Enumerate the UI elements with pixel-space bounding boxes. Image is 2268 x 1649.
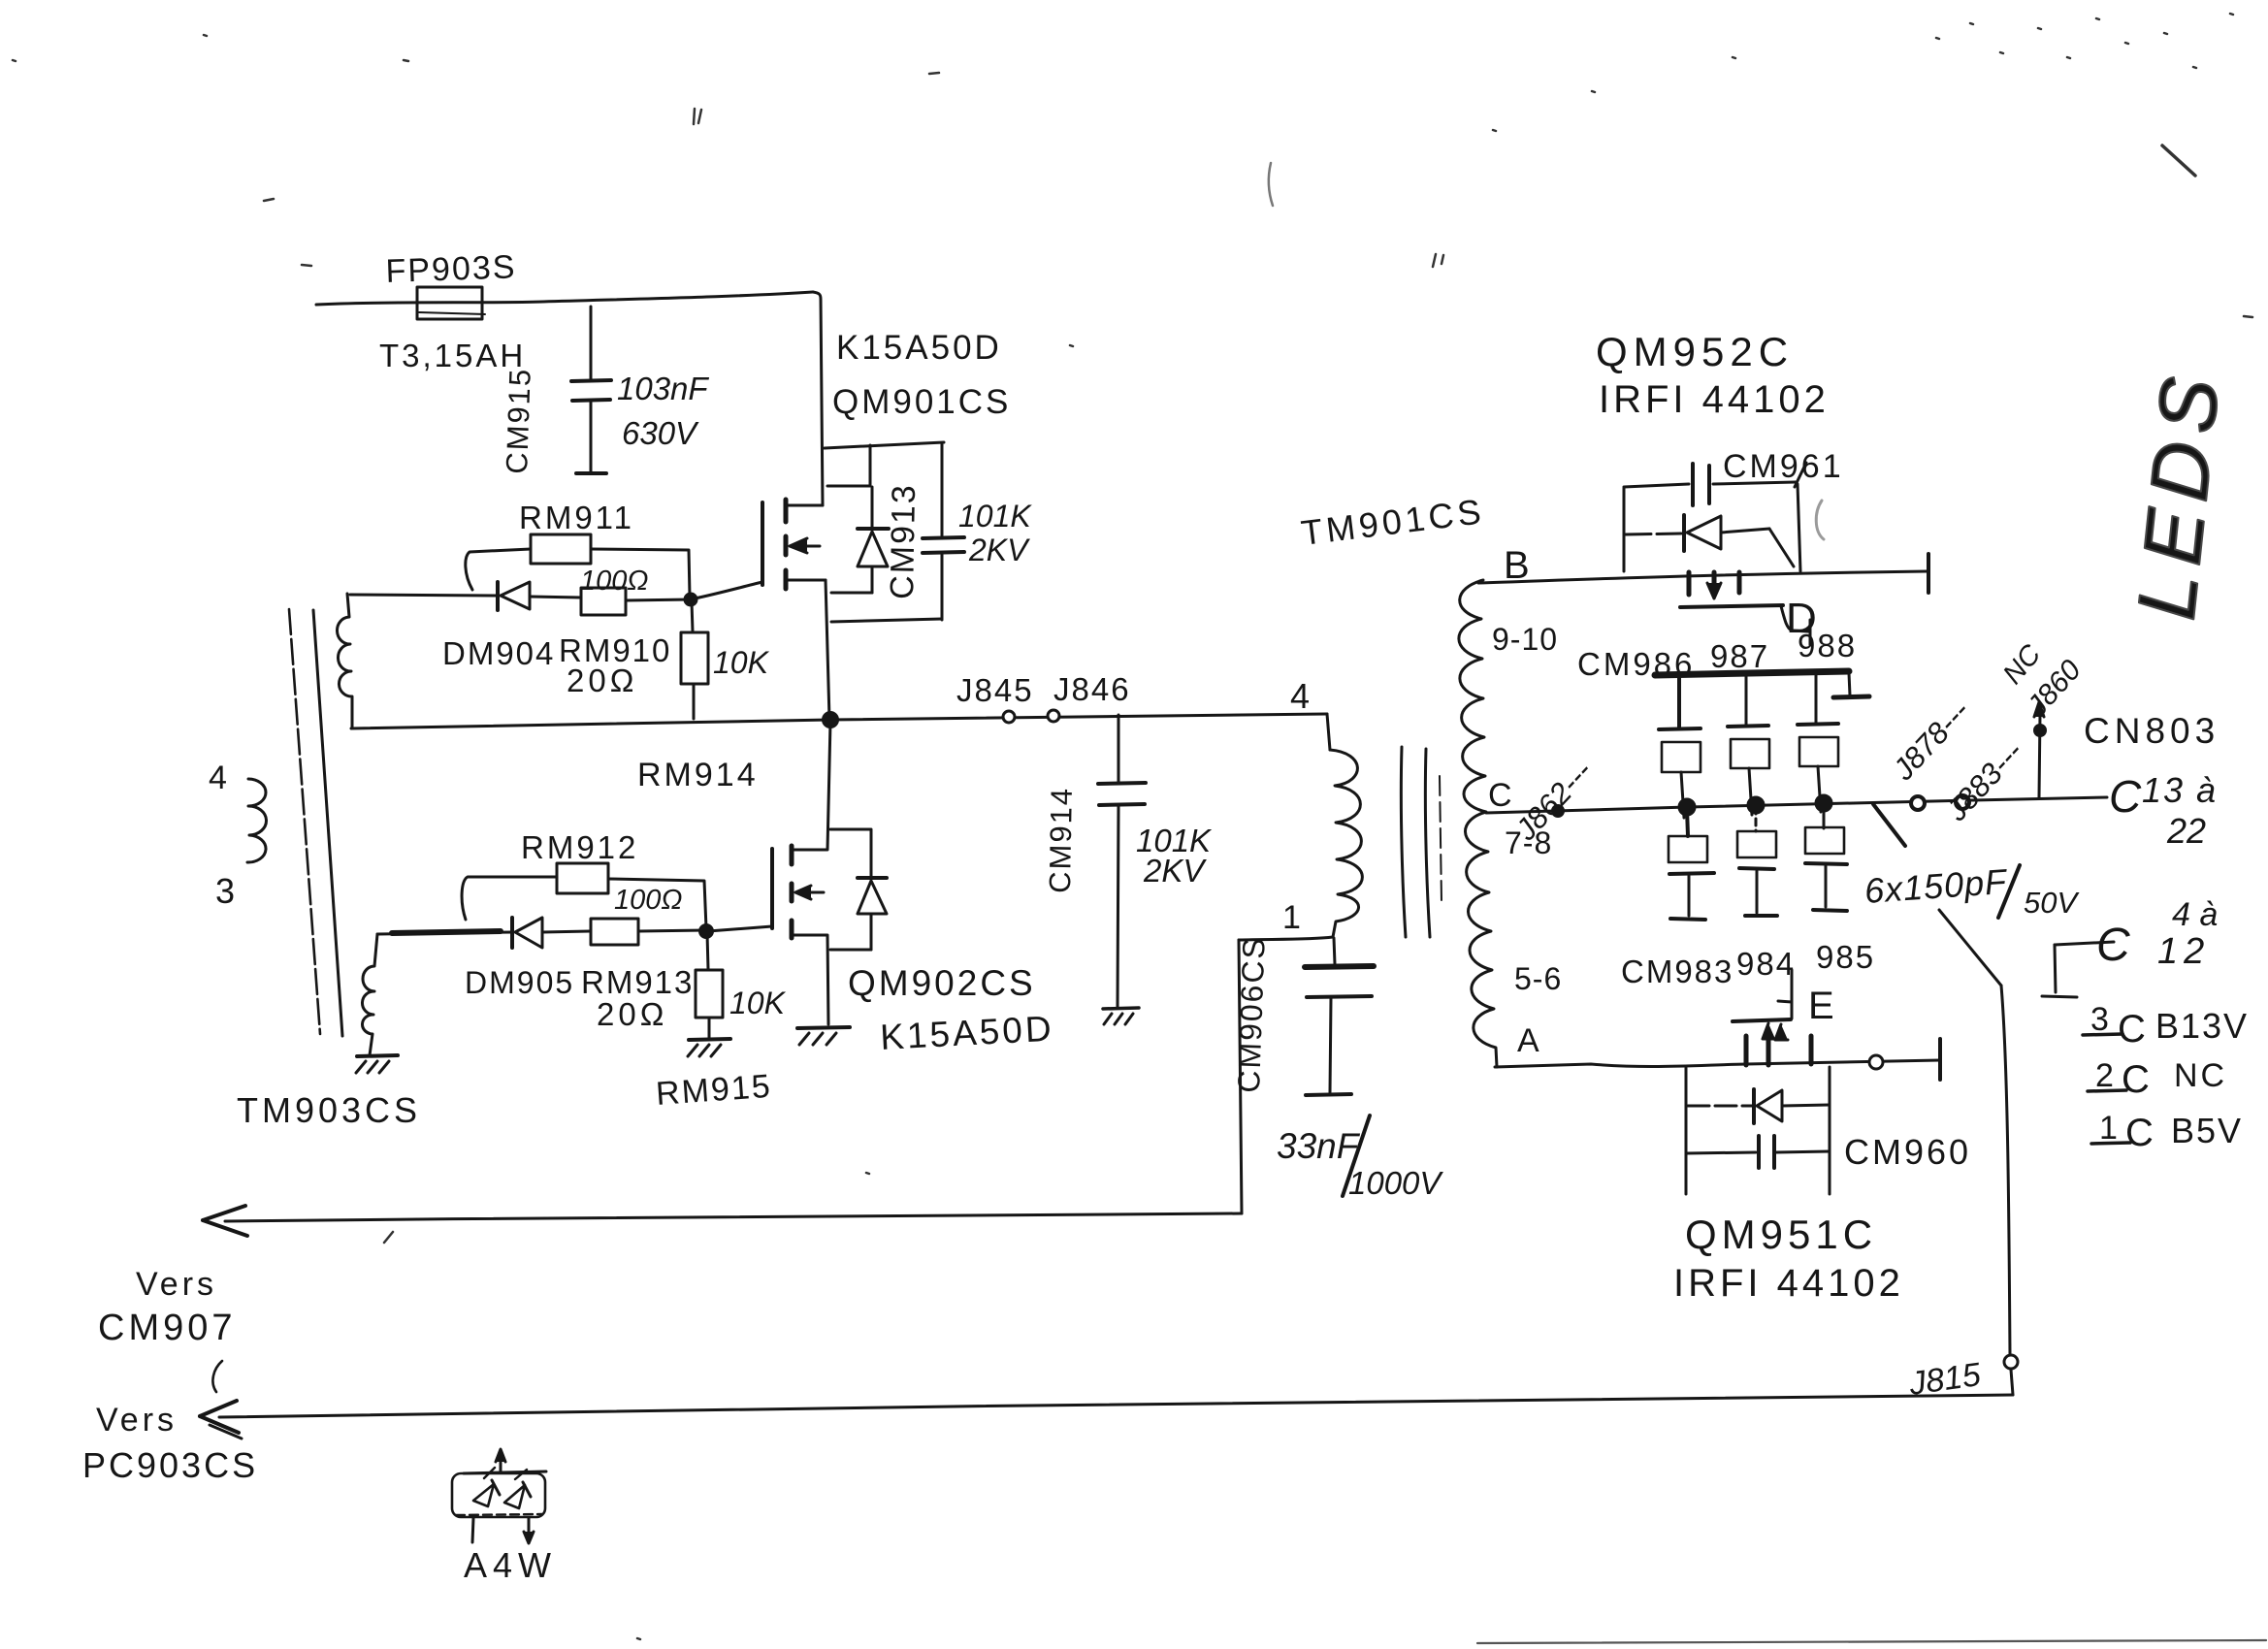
node mid rail junction xyxy=(824,713,838,727)
svg-text:FP903S: FP903S xyxy=(385,248,517,290)
svg-text:984: 984 xyxy=(1736,946,1796,982)
svg-text:2: 2 xyxy=(2095,1057,2114,1094)
wire bottom rail 1 (vers CM907) xyxy=(98,1206,1242,1348)
connector pin 2 NC xyxy=(2088,1057,2227,1101)
diode CM913 with snubber box xyxy=(825,442,944,622)
svg-text:1000V: 1000V xyxy=(1348,1165,1443,1201)
diode QM952 body xyxy=(1626,515,1794,566)
svg-text:CM914: CM914 xyxy=(1043,787,1079,894)
capacitor CM988 xyxy=(1798,672,1838,812)
capacitor CM984 xyxy=(1736,807,1796,982)
svg-text:QM902CS: QM902CS xyxy=(848,963,1036,1003)
node C rail junction 3 xyxy=(1816,795,1831,811)
svg-text:IRFI 44102: IRFI 44102 xyxy=(1673,1262,1904,1305)
resistor RM911 xyxy=(466,500,690,597)
svg-text:4: 4 xyxy=(209,760,227,796)
svg-text:103nF: 103nF xyxy=(617,371,709,406)
svg-text:J846: J846 xyxy=(1053,671,1131,707)
connector pin 1 B5V xyxy=(2091,1110,2243,1154)
capacitor bank CM986 987 988 xyxy=(1577,628,1857,682)
capacitor CM906CS xyxy=(1231,935,1443,1201)
label 6x150pF/50V xyxy=(1863,804,2081,920)
svg-text:2KV: 2KV xyxy=(968,533,1030,567)
svg-text:10K: 10K xyxy=(729,986,787,1020)
svg-text:A4W: A4W xyxy=(464,1545,557,1585)
svg-text:B13V: B13V xyxy=(2155,1006,2249,1046)
connector pin 3 B13V xyxy=(2083,1001,2249,1051)
wire left drop to bottom rail xyxy=(1239,940,1242,1213)
svg-text:22: 22 xyxy=(2166,811,2206,851)
node gate junction QM902 xyxy=(700,925,773,938)
svg-text:C: C xyxy=(2109,771,2142,822)
svg-text:100Ω: 100Ω xyxy=(614,885,682,916)
svg-text:DM904: DM904 xyxy=(442,635,555,671)
wire top rail xyxy=(316,292,813,305)
svg-text:C: C xyxy=(2125,1112,2154,1154)
svg-text:NC: NC xyxy=(2174,1057,2227,1094)
svg-text:DM905: DM905 xyxy=(465,965,574,1000)
svg-text:PC903CS: PC903CS xyxy=(82,1445,258,1485)
transformer T901 core xyxy=(1401,747,1442,937)
node J815 xyxy=(1906,1355,2018,1403)
transistor QM901 (K15A50D) xyxy=(762,329,1011,719)
svg-text:985: 985 xyxy=(1816,939,1875,975)
wire gate QM901 xyxy=(695,582,762,598)
wire bottom rail 2 (vers PC903CS) xyxy=(82,1361,2013,1485)
wire C rail xyxy=(1486,797,2107,813)
net LEDS xyxy=(2120,364,2237,624)
fuse FP903S xyxy=(379,248,526,373)
svg-text:CM983: CM983 xyxy=(1621,954,1733,989)
transformer TM903CS left winding pins 4-3 xyxy=(209,760,267,911)
capacitor CM914 xyxy=(1043,715,1213,1007)
transformer T901 primary winding xyxy=(1282,750,1362,937)
diode DM905 xyxy=(377,918,590,1000)
svg-text:RM911: RM911 xyxy=(519,500,634,535)
node gate junction QM901 xyxy=(685,594,697,605)
label TM903CS xyxy=(237,1090,421,1130)
svg-text:C: C xyxy=(2118,1008,2146,1051)
svg-text:RM912: RM912 xyxy=(521,829,638,865)
ground bus xyxy=(1833,673,1869,697)
transformer TM901CS winding xyxy=(1299,491,1562,1067)
wire drain drop QM901 xyxy=(813,292,823,505)
node J845 xyxy=(956,672,1034,723)
diode QM902 body xyxy=(830,829,887,950)
svg-text:988: 988 xyxy=(1798,628,1857,663)
svg-text:20Ω: 20Ω xyxy=(597,996,667,1032)
svg-text:QM952C: QM952C xyxy=(1596,329,1794,374)
capacitor CM915 xyxy=(500,307,709,474)
ground CM914 xyxy=(1103,1008,1139,1024)
svg-text:9-10: 9-10 xyxy=(1492,622,1558,657)
svg-text:RM913: RM913 xyxy=(581,964,694,1000)
wire to J815 xyxy=(1939,910,2013,1395)
svg-text:2KV: 2KV xyxy=(1143,853,1207,889)
diode DM904 xyxy=(350,582,581,671)
resistor RM912 xyxy=(462,829,706,928)
wire pin1 node xyxy=(1239,937,1335,964)
resistor RM910 xyxy=(559,588,691,698)
svg-text:K15A50D: K15A50D xyxy=(836,329,1002,367)
svg-text:50V: 50V xyxy=(2024,886,2080,920)
transistor QM952 (QM952C IRFI44102) xyxy=(1596,329,1830,645)
svg-text:Vers: Vers xyxy=(96,1402,178,1439)
svg-text:CM913: CM913 xyxy=(884,483,923,599)
svg-text:3: 3 xyxy=(215,871,235,911)
svg-text:CM961: CM961 xyxy=(1723,448,1844,485)
transformer TM903CS lower winding xyxy=(362,934,377,1055)
ground TM903CS xyxy=(356,1055,398,1073)
ground RM915 xyxy=(655,1039,773,1113)
svg-text:3: 3 xyxy=(2090,1001,2109,1038)
node C rail junction 1 xyxy=(1679,799,1695,815)
svg-text:Vers: Vers xyxy=(136,1266,217,1303)
node A rail circle xyxy=(1869,1055,1883,1069)
transformer TM903CS upper winding xyxy=(337,594,352,727)
node J883 xyxy=(1939,734,2029,827)
svg-text:B5V: B5V xyxy=(2171,1111,2243,1150)
capacitor CM986 xyxy=(1659,675,1701,818)
LED A4W xyxy=(452,1449,557,1585)
node J862 xyxy=(1508,754,1599,847)
transistor QM902 xyxy=(772,722,1055,1057)
svg-text:13 à: 13 à xyxy=(2142,770,2218,810)
svg-text:1: 1 xyxy=(2099,1110,2118,1147)
resistor 10K lower (RM915) xyxy=(696,933,787,1038)
svg-text:CN803: CN803 xyxy=(2084,711,2219,751)
svg-text:5-6: 5-6 xyxy=(1514,961,1562,996)
svg-text:12: 12 xyxy=(2157,931,2210,972)
svg-text:QM951C: QM951C xyxy=(1685,1212,1877,1257)
svg-text:1: 1 xyxy=(1282,899,1301,936)
svg-text:CM907: CM907 xyxy=(98,1308,237,1348)
connector CN803 pin J860 xyxy=(1997,638,2219,797)
transistor QM951 (QM951C IRFI44102) xyxy=(1673,970,1904,1305)
svg-text:RM914: RM914 xyxy=(637,757,759,793)
capacitor CM983 xyxy=(1621,809,1733,989)
svg-text:IRFI 44102: IRFI 44102 xyxy=(1599,378,1830,421)
svg-text:987: 987 xyxy=(1710,638,1769,674)
svg-text:J845: J845 xyxy=(956,672,1034,708)
capacitor CM985 xyxy=(1805,805,1875,975)
capacitor 101K 2KV (on CM913 box) xyxy=(923,499,1032,620)
diode QM951 body xyxy=(1686,1067,1830,1194)
capacitor CM987 xyxy=(1728,673,1769,815)
svg-text:10K: 10K xyxy=(713,645,770,680)
net C4 a 12 xyxy=(2042,896,2218,997)
ground QM902 xyxy=(797,1027,850,1045)
node C rail junction 2 xyxy=(1748,797,1764,813)
svg-text:630V: 630V xyxy=(622,415,699,451)
svg-text:C: C xyxy=(2122,1058,2150,1101)
svg-text:4: 4 xyxy=(1290,676,1310,716)
svg-text:CM915: CM915 xyxy=(500,367,537,474)
svg-text:4 à: 4 à xyxy=(2172,896,2218,933)
svg-text:C: C xyxy=(1488,777,1512,814)
svg-text:TM903CS: TM903CS xyxy=(237,1090,421,1130)
wire B rail xyxy=(1478,554,1928,593)
svg-text:E: E xyxy=(1808,985,1834,1027)
capacitor CM960 xyxy=(1686,1132,1971,1172)
capacitor CM961 xyxy=(1624,448,1844,571)
svg-text:CM960: CM960 xyxy=(1844,1132,1971,1172)
svg-text:C: C xyxy=(2096,920,2130,971)
svg-text:20Ω: 20Ω xyxy=(567,663,637,698)
wire pin4 drop xyxy=(1290,676,1330,750)
net C13 a 22 xyxy=(2109,770,2218,851)
resistor 10K upper xyxy=(681,601,770,719)
svg-text:101K: 101K xyxy=(958,499,1032,533)
svg-text:CM906CS: CM906CS xyxy=(1231,935,1272,1093)
wire A rail xyxy=(1495,1039,1940,1080)
wire mid rail xyxy=(351,714,1327,793)
node J846 xyxy=(1048,671,1131,722)
node J878 xyxy=(1886,694,1976,810)
transformer TM903CS core xyxy=(289,609,342,1036)
resistor RM913 xyxy=(581,919,706,1032)
svg-text:100Ω: 100Ω xyxy=(580,566,648,597)
svg-text:33nF: 33nF xyxy=(1277,1126,1361,1166)
svg-text:QM901CS: QM901CS xyxy=(832,383,1011,421)
svg-text:A: A xyxy=(1517,1022,1539,1059)
